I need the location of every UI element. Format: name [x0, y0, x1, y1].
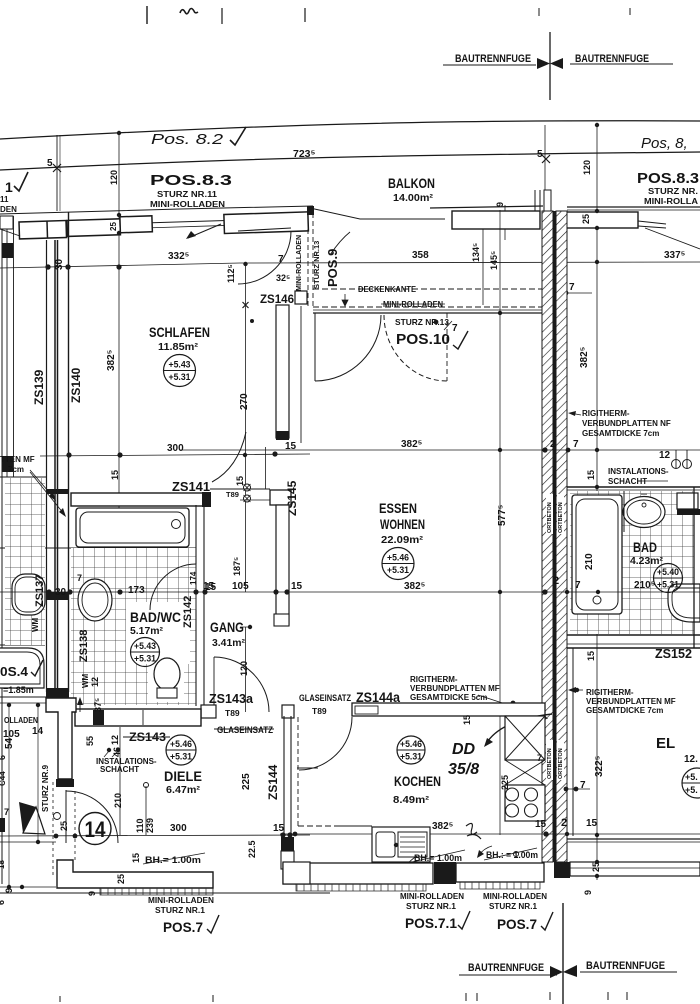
svg-text:382⁵: 382⁵	[404, 581, 426, 592]
svg-text:1: 1	[5, 179, 13, 195]
svg-text:723⁵: 723⁵	[293, 148, 316, 160]
dim line y592	[0, 591, 700, 593]
svg-text:GANG: GANG	[210, 620, 244, 635]
svg-text:VERBUNDPLATTEN MF: VERBUNDPLATTEN MF	[586, 697, 676, 706]
svg-text:11.85m²: 11.85m²	[158, 341, 199, 353]
right bath bottom wall ZS152	[567, 634, 700, 636]
neighbour sink	[12, 574, 45, 615]
svg-text:22.09m²: 22.09m²	[381, 534, 424, 546]
dim line y836	[0, 835, 310, 836]
rigitherm right	[570, 413, 581, 415]
WOHNEN top wall line	[313, 312, 543, 314]
svg-text:MINI-ROLLADEN: MINI-ROLLADEN	[383, 300, 443, 309]
svg-text:210: 210	[113, 793, 123, 808]
dashed verticals entrance	[52, 782, 54, 878]
svg-text:ZS142: ZS142	[182, 596, 194, 628]
left facade wall	[1, 216, 3, 884]
dim line y447	[180, 449, 700, 451]
svg-text:15: 15	[273, 823, 285, 834]
svg-text:T89: T89	[312, 706, 327, 716]
svg-text:BAD/WC: BAD/WC	[130, 610, 181, 625]
svg-text:225: 225	[500, 775, 510, 790]
right apartment right edge	[693, 487, 695, 648]
svg-text:+5.31: +5.31	[657, 580, 680, 591]
svg-text:30: 30	[55, 587, 67, 598]
svg-text:112⁵: 112⁵	[226, 264, 236, 283]
svg-text:MINI-ROLLADEN: MINI-ROLLADEN	[150, 200, 225, 209]
svg-text:GLASEINSATZ: GLASEINSATZ	[299, 693, 351, 703]
svg-text:TTEN MF: TTEN MF	[0, 455, 35, 464]
dim line y455 with 300	[40, 454, 310, 456]
svg-text:382⁵: 382⁵	[106, 349, 117, 371]
svg-text:7: 7	[4, 807, 9, 817]
svg-text:30: 30	[54, 258, 65, 270]
neighbour tub bottom left	[0, 648, 44, 688]
svg-text:9: 9	[583, 890, 593, 895]
svg-text:ZS138: ZS138	[78, 630, 90, 662]
svg-text:GLASEINSATZ: GLASEINSATZ	[217, 725, 273, 735]
bottom-left neighbour	[0, 696, 46, 698]
svg-text:174: 174	[189, 571, 198, 585]
sink right	[623, 497, 665, 528]
glass door arc (T89) up into gang	[214, 657, 269, 712]
svg-text:337⁵: 337⁵	[664, 250, 686, 261]
svg-text:POS.7.1: POS.7.1	[405, 915, 457, 931]
svg-text:12: 12	[90, 677, 100, 687]
svg-text:DD: DD	[452, 741, 476, 758]
svg-text:MINI-ROLLADEN: MINI-ROLLADEN	[148, 896, 214, 905]
svg-text:2: 2	[550, 439, 556, 450]
svg-text:2: 2	[561, 817, 567, 829]
svg-text:15: 15	[235, 476, 245, 486]
svg-text:RIGITHERM-: RIGITHERM-	[582, 409, 630, 418]
svg-text:INSTALATIONS-: INSTALATIONS-	[608, 467, 669, 476]
svg-text:STURZ NR.13: STURZ NR.13	[312, 241, 321, 289]
svg-text:ESSEN: ESSEN	[379, 501, 417, 516]
KOCHEN labels	[397, 736, 425, 764]
svg-text:7: 7	[569, 282, 575, 293]
svg-text:300: 300	[170, 823, 187, 834]
svg-text:ORTBETON: ORTBETON	[547, 502, 553, 533]
wall pieces at gang bottom	[201, 705, 216, 718]
window left of party wall	[452, 211, 540, 229]
svg-text:POS.10: POS.10	[396, 331, 450, 348]
svg-text:22.5: 22.5	[247, 840, 257, 858]
bathtub right	[572, 495, 622, 614]
svg-text:2: 2	[553, 575, 559, 587]
circle 14	[79, 813, 111, 845]
svg-text:BAUTRENNFUGE: BAUTRENNFUGE	[468, 962, 544, 974]
svg-text:STURZ NR.: STURZ NR.	[648, 187, 698, 196]
svg-text:225: 225	[241, 773, 252, 790]
svg-text:6: 6	[0, 900, 6, 905]
svg-text:5: 5	[47, 158, 53, 169]
right bath top wall	[567, 486, 700, 488]
gang east wall	[276, 505, 289, 625]
svg-text:WOHNEN: WOHNEN	[380, 517, 425, 532]
svg-text:DECKENKANTE: DECKENKANTE	[358, 285, 417, 294]
svg-text:8.49m²: 8.49m²	[393, 794, 430, 806]
bad/wc tiled floor	[71, 547, 196, 549]
svg-text:DEN: DEN	[0, 205, 17, 214]
svg-text:MINI-ROLLA: MINI-ROLLA	[644, 197, 698, 206]
svg-text:382⁵: 382⁵	[579, 346, 590, 368]
svg-text:110: 110	[135, 818, 145, 833]
svg-text:18: 18	[0, 860, 6, 869]
top tick marks	[146, 6, 148, 24]
svg-text:POS.7: POS.7	[497, 916, 537, 932]
svg-text:270: 270	[239, 393, 250, 410]
svg-text:EL: EL	[656, 735, 675, 752]
toilet right	[668, 584, 700, 622]
svg-text:STURZ NR.13: STURZ NR.13	[395, 317, 449, 327]
svg-text:5: 5	[537, 149, 543, 160]
svg-text:6: 6	[0, 755, 7, 760]
svg-text:ZS144: ZS144	[266, 764, 280, 800]
svg-text:BH.= 1.00m: BH.= 1.00m	[145, 855, 201, 865]
svg-text:VERBUNDPLATTEN MF: VERBUNDPLATTEN MF	[410, 684, 500, 693]
svg-text:25: 25	[116, 874, 126, 884]
svg-text:C44: C44	[0, 771, 7, 786]
toilet left bath	[154, 658, 180, 690]
svg-text:+5.31: +5.31	[169, 372, 192, 383]
svg-text:5.17m²: 5.17m²	[130, 626, 164, 637]
svg-text:BAD: BAD	[633, 540, 657, 555]
svg-text:ZS137: ZS137	[34, 575, 46, 607]
svg-text:ZS141: ZS141	[172, 479, 210, 494]
dashed kitchen line	[297, 717, 299, 826]
svg-text:+5.31: +5.31	[400, 752, 423, 763]
svg-text:WM: WM	[81, 673, 90, 688]
svg-text:120: 120	[582, 160, 592, 175]
svg-text:ZS143a: ZS143a	[209, 691, 254, 706]
svg-text:7: 7	[537, 753, 542, 763]
svg-text:382⁵: 382⁵	[401, 439, 423, 450]
svg-text:577⁵: 577⁵	[497, 504, 508, 526]
svg-text:15: 15	[586, 651, 596, 661]
svg-text:32⁵: 32⁵	[276, 273, 290, 283]
svg-text:MINI-ROLLADEN: MINI-ROLLADEN	[400, 892, 464, 901]
svg-text:300: 300	[167, 443, 184, 454]
svg-text:120: 120	[109, 170, 119, 185]
neighbour tiles	[5, 478, 45, 645]
svg-text:BAUTRENNFUGE: BAUTRENNFUGE	[575, 53, 649, 65]
svg-text:=1.85m: =1.85m	[3, 685, 34, 695]
svg-text:+5.31: +5.31	[170, 752, 193, 763]
svg-text:STURZ NR.11: STURZ NR.11	[157, 190, 218, 199]
kitchen dashed roll line	[298, 825, 340, 827]
svg-text:7: 7	[278, 254, 284, 265]
kitchen counter bottom with sink	[372, 827, 430, 862]
svg-text:7: 7	[575, 580, 581, 591]
svg-text:+5.43: +5.43	[169, 360, 191, 371]
svg-text:45: 45	[0, 475, 2, 485]
svg-text:+5.46: +5.46	[400, 739, 422, 750]
svg-text:187⁵: 187⁵	[232, 557, 242, 576]
svg-text:210⁵: 210⁵	[634, 580, 656, 591]
svg-text:14.00m²: 14.00m²	[393, 193, 434, 204]
kitchen top wall	[352, 703, 545, 716]
svg-text:GESAMTDICKE 5cm: GESAMTDICKE 5cm	[410, 693, 487, 702]
svg-text:12: 12	[659, 450, 671, 461]
svg-text:15: 15	[291, 581, 303, 592]
svg-text:7: 7	[573, 439, 579, 450]
svg-text:6.47m²: 6.47m²	[166, 784, 201, 796]
right bottom wall	[570, 862, 700, 876]
gang west wall	[195, 610, 197, 706]
schlafen balcony door leaf and arc	[238, 228, 291, 231]
svg-text:Pos, 8,: Pos, 8,	[641, 135, 688, 152]
door arc schlafen	[212, 432, 246, 482]
svg-text:POS.8.3: POS.8.3	[637, 170, 699, 187]
svg-text:0S.4: 0S.4	[0, 664, 29, 679]
svg-text:+5.46: +5.46	[170, 739, 192, 750]
ZS144 wall vertical	[283, 716, 285, 845]
wall ZS139 / ZS140	[46, 240, 48, 692]
svg-text:ZS152: ZS152	[655, 647, 692, 661]
right bath tiles	[570, 491, 694, 634]
svg-text:105: 105	[232, 581, 249, 592]
shaft box	[677, 493, 698, 509]
kochen door arc	[299, 717, 352, 770]
dim line y833	[280, 833, 700, 835]
svg-text:15: 15	[586, 818, 598, 829]
svg-text:POS.9: POS.9	[325, 249, 340, 287]
svg-text:ZS146: ZS146	[260, 292, 294, 306]
svg-text:ORTBETON: ORTBETON	[547, 748, 553, 779]
svg-text:BH.: = 1.00m: BH.: = 1.00m	[486, 850, 538, 860]
svg-text:37⁵: 37⁵	[93, 698, 103, 712]
BAUTRENNFUGE top joint symbol	[549, 32, 551, 100]
svg-text:7: 7	[77, 573, 82, 583]
svg-text:12.: 12.	[684, 754, 698, 765]
POS.10 door arcs	[314, 313, 316, 381]
svg-text:+5.46: +5.46	[387, 553, 409, 564]
svg-text:POS.7: POS.7	[163, 919, 203, 935]
entrance door arc	[65, 790, 67, 843]
svg-text:VERBUNDPLATTEN NF: VERBUNDPLATTEN NF	[582, 419, 671, 428]
svg-text:35/8: 35/8	[448, 761, 479, 778]
svg-text:STURZ NR.1: STURZ NR.1	[155, 906, 206, 915]
svg-text:12: 12	[110, 735, 120, 745]
svg-text:+5.: +5.	[685, 772, 698, 782]
svg-text:+5.40: +5.40	[657, 567, 679, 578]
svg-text:ZS139: ZS139	[32, 369, 46, 405]
svg-text:+5.: +5.	[685, 785, 698, 795]
svg-text:11: 11	[0, 195, 9, 204]
rigitherm right lower	[570, 689, 583, 691]
svg-text:54: 54	[4, 737, 15, 749]
balcony edge lines	[0, 121, 700, 139]
bottom facade line left	[0, 892, 330, 894]
svg-text:4.23m²: 4.23m²	[630, 556, 664, 567]
svg-text:+5.31: +5.31	[134, 654, 157, 665]
svg-text:322⁵: 322⁵	[594, 755, 605, 777]
arrow onto threshold	[188, 224, 221, 238]
svg-text:WM: WM	[31, 617, 40, 632]
top exterior wall with windows (slanted)	[0, 206, 313, 214]
svg-text:RIGITHERM-: RIGITHERM-	[410, 675, 458, 684]
svg-text:DIELE: DIELE	[164, 769, 202, 784]
svg-text:+5.43: +5.43	[134, 641, 156, 652]
svg-text:55: 55	[85, 736, 95, 746]
svg-text:15: 15	[535, 819, 547, 830]
bottom ticks	[59, 996, 61, 1002]
svg-text:Pos. 8.2: Pos. 8.2	[151, 131, 224, 148]
dashed window lines POS.9	[307, 213, 309, 307]
svg-text:382⁵: 382⁵	[432, 821, 454, 832]
svg-text:145⁵: 145⁵	[489, 251, 499, 270]
svg-text:BAUTRENNFUGE: BAUTRENNFUGE	[455, 53, 531, 65]
svg-text:ORTBETON: ORTBETON	[558, 748, 564, 779]
sink left bath	[78, 579, 112, 621]
wall piece between diele and neighbour top	[46, 698, 76, 779]
svg-text:ORTBETON: ORTBETON	[558, 502, 564, 533]
svg-text:STURZ NR.1: STURZ NR.1	[406, 902, 457, 911]
svg-text:15: 15	[462, 715, 472, 725]
svg-text:15: 15	[586, 470, 596, 480]
svg-text:STURZ NR.1: STURZ NR.1	[489, 902, 538, 911]
svg-text:BAUTRENNFUGE: BAUTRENNFUGE	[586, 960, 665, 972]
dimension line y263	[0, 262, 700, 268]
party wall hatched	[542, 211, 553, 862]
diele bottom wall	[57, 860, 213, 888]
svg-text:25: 25	[581, 214, 591, 224]
svg-text:POS.8.3: POS.8.3	[150, 172, 232, 189]
svg-text:BALKON: BALKON	[388, 176, 435, 191]
svg-text:25: 25	[109, 222, 118, 231]
right apartment window	[564, 212, 638, 228]
north arrow	[19, 802, 36, 833]
svg-text:239: 239	[145, 818, 155, 833]
door arc bad/wc	[195, 564, 197, 610]
svg-text:GESAMTDICKE 7cm: GESAMTDICKE 7cm	[582, 429, 659, 438]
svg-text:+5.31: +5.31	[387, 565, 410, 576]
DECKENKANTE dashed	[313, 288, 543, 290]
svg-text:134⁵: 134⁵	[471, 243, 481, 262]
svg-text:173: 173	[128, 585, 145, 596]
stove	[505, 785, 545, 821]
svg-text:14: 14	[85, 817, 107, 842]
svg-text:ZS140: ZS140	[69, 367, 83, 403]
svg-text:15: 15	[131, 853, 141, 863]
svg-text:25: 25	[59, 821, 69, 831]
handwritten squiggle	[466, 823, 481, 839]
svg-text:MINI-ROLLADEN: MINI-ROLLADEN	[483, 892, 547, 901]
kitchen bottom walls/windows	[283, 863, 433, 884]
svg-text:T89: T89	[225, 708, 240, 718]
svg-text:STURZ NR.9: STURZ NR.9	[41, 764, 50, 812]
svg-text:KOCHEN: KOCHEN	[394, 774, 441, 789]
svg-text:332⁵: 332⁵	[168, 251, 190, 262]
kitchen tall unit with X	[505, 716, 545, 760]
svg-text:GESAMTDICKE 7cm: GESAMTDICKE 7cm	[586, 706, 663, 715]
svg-text:210: 210	[584, 553, 595, 570]
svg-text:3.41m²: 3.41m²	[212, 637, 245, 649]
dim verticals top	[118, 133, 120, 598]
svg-text:7cm: 7cm	[8, 465, 24, 474]
DIELE top wall	[75, 709, 201, 726]
bathtub left bath	[76, 508, 189, 547]
svg-text:RIGITHERM-: RIGITHERM-	[586, 688, 634, 697]
svg-text:BH.= 1.00m: BH.= 1.00m	[414, 853, 462, 863]
svg-text:7: 7	[452, 323, 458, 334]
svg-text:SCHACHT: SCHACHT	[608, 477, 647, 486]
svg-text:358: 358	[412, 250, 429, 261]
svg-text:T89: T89	[226, 490, 239, 499]
svg-text:SCHLAFEN: SCHLAFEN	[149, 324, 210, 340]
svg-text:15: 15	[110, 470, 120, 480]
svg-text:9: 9	[87, 891, 97, 896]
